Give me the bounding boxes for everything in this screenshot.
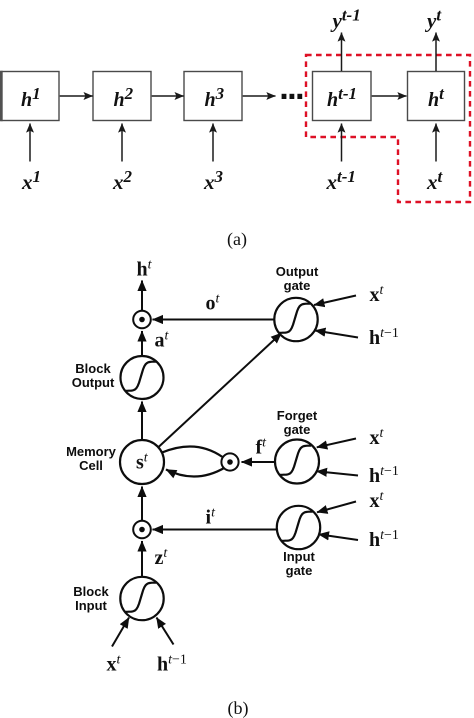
label ot [206,292,221,315]
label ht-1 (output) [369,326,399,349]
svg-text:gate: gate [284,278,311,293]
box h3 [184,72,242,121]
label Forget gate [277,408,318,437]
loop upper arc st to forget product [162,446,223,457]
label y t-1 [330,6,361,33]
product node output [133,311,151,329]
block output unit [121,356,164,399]
label x t [426,167,444,194]
label x t-1 [326,167,356,194]
box h2 [93,72,151,121]
label ht-1 (input) [369,528,399,551]
arrow st to block output [141,402,143,441]
forget gate unit [275,440,319,484]
input arrow x t-1 [341,124,343,162]
svg-text:(b): (b) [228,698,249,718]
caption (b) [228,698,249,718]
arrow it from input gate to product node [153,529,277,531]
label Block Output [72,361,115,390]
arrow ht-1 to forget gate [317,471,359,475]
box h t [408,72,465,121]
label Memory Cell [66,444,117,473]
label ht [137,258,153,281]
wire h2 to h3 [152,95,184,97]
arrow at from block output to product node [141,331,143,356]
svg-text:Forget: Forget [277,408,318,423]
loop lower arc forget product to st [166,468,225,477]
arrow xt to forget gate [317,439,356,448]
svg-text:(a): (a) [227,229,247,250]
svg-text:gate: gate [284,422,311,437]
ellipsis dots [282,94,303,99]
label Input gate [283,549,315,578]
label x3 [203,167,224,194]
wire h1 to h2 [60,95,93,97]
svg-text:Output: Output [72,375,115,390]
label xt (input) [370,489,385,512]
svg-text:gate: gate [286,563,313,578]
arrow xt to output gate [314,296,356,306]
input arrow x t [435,124,437,162]
svg-text:Cell: Cell [79,458,103,473]
label y t [424,6,442,33]
output arrow y t-1 [341,33,343,72]
memory cell [120,440,164,484]
arrow zt from block input to product node [141,541,143,577]
input gate unit [277,506,320,549]
input arrow x3 [212,124,214,162]
arrow xt to input gate [317,502,356,513]
label xt (output) [370,283,385,306]
svg-text:Output: Output [276,264,319,279]
output arrow y t [435,33,437,72]
input arrow x1 [29,124,31,162]
label xt (forget) [370,426,385,449]
label it [206,506,217,529]
arrow ot from output gate to product node [153,319,275,321]
svg-text:Block: Block [75,361,111,376]
red dashed region [306,55,470,202]
label at [155,329,170,352]
box h1 [1,71,59,121]
label x2 [112,167,133,194]
arrow ht-1 to block input [157,618,174,645]
svg-text:Input: Input [75,598,107,613]
label ht-1 (block input) [157,653,187,676]
product node forget [221,453,238,470]
arrow ht-1 to input gate [319,534,359,540]
output gate unit [274,298,317,341]
wire h t-1 to h t [372,95,407,97]
caption (a) [227,229,247,250]
label Output gate [276,264,319,293]
label zt [155,546,169,569]
label ht-1 (forget) [369,464,399,487]
wire h3 to ellipsis [243,95,276,97]
wire st to output gate [158,333,282,448]
arrow ht-1 to output gate [315,331,358,338]
label Block Input [73,584,109,613]
box h t-1 [313,72,372,121]
svg-text:Block: Block [73,584,109,599]
arrow to ht [141,281,143,311]
block input unit [120,577,163,620]
input arrow x2 [121,124,123,162]
product node input [133,521,151,539]
arrow xt to block input [112,618,129,647]
label x1 [21,167,41,194]
arrow product input to st [141,487,143,521]
svg-text:Input: Input [283,549,315,564]
label ft [256,436,268,459]
svg-text:Memory: Memory [66,444,117,459]
arrow ft from forget gate to product node [242,461,275,463]
label xt (block input) [107,653,122,676]
